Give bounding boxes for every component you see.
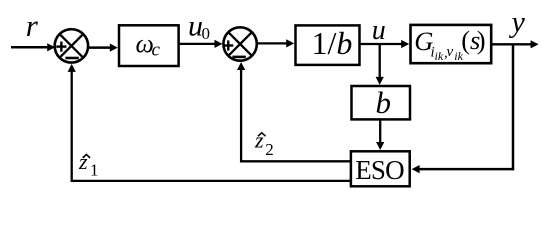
svg-text:z: z [78, 149, 88, 174]
svg-text:r: r [26, 8, 39, 43]
block 1/b [296, 25, 360, 65]
S2 plus sign [223, 40, 233, 50]
S2 minus sign [232, 56, 245, 59]
wire S1 to block wc [88, 46, 112, 49]
svg-text:z: z [254, 127, 264, 152]
svg-text:v: v [447, 44, 454, 60]
svg-text:1/b: 1/b [312, 25, 353, 61]
block wc (omega_c) [119, 25, 179, 66]
S1 minus sign [65, 57, 78, 60]
summing junction S1 (circle with cross) [55, 29, 88, 62]
summing junction S2 (circle with cross) [223, 27, 256, 60]
block ESO [351, 151, 410, 186]
svg-text:b: b [376, 85, 392, 120]
wire branch u down to block b [379, 44, 381, 79]
svg-text:ik: ik [435, 49, 444, 63]
svg-text:2: 2 [265, 140, 274, 159]
svg-text:1: 1 [90, 161, 99, 180]
wire G to output y [492, 43, 532, 45]
svg-text:): ) [477, 25, 486, 55]
wire z2hat from ESO left up into S2 [241, 70, 350, 162]
S1 plus sign [56, 42, 66, 52]
wire 1/b to block G, node u [360, 43, 403, 45]
svg-text:ESO: ESO [355, 155, 404, 185]
block b [352, 86, 411, 119]
svg-text:u: u [372, 15, 386, 46]
block G transfer function [411, 25, 492, 63]
wire wc to summing junction S2 [179, 43, 216, 45]
svg-text:0: 0 [202, 24, 211, 43]
wire z1hat from ESO left up into S1 [72, 71, 351, 180]
wire S2 to block 1/b [257, 42, 288, 44]
svg-text:(: ( [461, 25, 470, 55]
wire input r to summing junction S1 [11, 46, 49, 49]
wire b to ESO [379, 121, 381, 144]
svg-text:c: c [152, 40, 161, 61]
svg-text:y: y [509, 6, 526, 39]
wire feedback from y down and left into ESO [419, 44, 514, 169]
